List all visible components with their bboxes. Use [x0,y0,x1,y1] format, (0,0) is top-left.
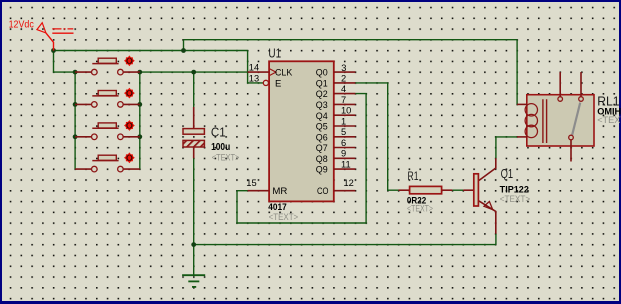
wire 12V node horizontal to E-pin column [54,50,248,52]
svg-text:TIP122: TIP122 [500,184,529,194]
wire C1 bottom to ground rail [193,158,195,244]
pin contact NC [559,72,561,97]
wire 12V node down to button bus [54,51,76,73]
node ground rail junction [191,242,196,247]
node right bus row1 [137,70,142,75]
relay coil [525,104,537,116]
node left bus row2 [73,102,78,107]
button SW4 [75,152,140,172]
emitter arrow [484,202,493,210]
pin stubs Q0-Q9 and CO [334,72,356,191]
svg-text:Q1: Q1 [316,79,328,90]
node 12V junction [51,48,56,53]
switch arm [572,103,580,135]
svg-text:Q4: Q4 [316,111,328,122]
wire rail drop to 12V node [183,40,185,51]
pin numbers right [341,63,354,188]
svg-text:E: E [275,78,281,89]
actuate star SW4 [124,152,135,163]
svg-text:Q2: Q2 [316,89,328,100]
wire R1 to base link [452,189,463,191]
pin common [570,140,572,162]
wire rail drop to relay coil top [516,40,518,105]
pin coil bottom [517,136,527,138]
svg-text:2: 2 [341,73,346,83]
clock chevron [269,69,276,76]
svg-text:10: 10 [341,106,351,116]
wire E-pin column down [248,51,264,83]
svg-text:100u: 100u [211,141,230,153]
wire MR to Q2 loop [237,94,366,223]
svg-text:9: 9 [341,149,346,159]
pin Q1 emitter [479,201,496,234]
pin contact NO [580,72,582,97]
svg-text:<TEXT>: <TEXT> [269,212,299,222]
pin Q1 collector [479,158,496,180]
pin R1 right [442,189,453,191]
wire C1 branch from CLK net [193,72,195,107]
svg-text:12Vdc: 12Vdc [9,19,34,30]
node rail junction [181,48,186,53]
svg-text:5: 5 [341,127,346,137]
wire emitter drop to ground rail [495,234,497,245]
svg-text:4: 4 [341,84,346,94]
svg-text:MR: MR [272,186,287,197]
pin C1 top [193,107,195,129]
svg-text:7: 7 [341,95,346,105]
svg-text:U1: U1 [268,45,281,60]
button SW1 [75,55,140,74]
svg-text:13: 13 [249,73,259,83]
actuate star SW3 [124,120,135,131]
svg-text:6: 6 [341,138,346,148]
svg-text:CO: CO [317,186,329,197]
pin 14 CLK stub [248,71,270,73]
actuate star SW1 [124,55,135,66]
node right bus row2 [137,102,142,107]
labels Q0-Q9 [316,68,328,176]
svg-text:14: 14 [249,63,259,73]
pin coil top [517,103,527,105]
relay core [543,99,547,143]
svg-text:Q0: Q0 [316,68,328,79]
base bar [474,174,479,206]
svg-text:Q3: Q3 [316,100,328,111]
wire MR stub link [237,190,248,192]
pin numbers left [246,63,259,189]
pin Q1 base [463,189,474,191]
svg-text:<TEXT>: <TEXT> [500,194,531,204]
wire collector to relay coil [496,137,517,158]
node left bus row3 [73,134,78,139]
svg-text:11: 11 [341,160,351,170]
svg-text:Q6: Q6 [316,132,328,143]
pin 13 E bubble [263,80,268,85]
svg-text:CLK: CLK [275,67,293,78]
node C1 top junction [191,70,196,75]
svg-text:R1: R1 [408,169,419,183]
wire top supply rail to relay [184,39,518,41]
wire button row1 to CLK pin [140,71,248,73]
node right bus row3 [137,134,142,139]
svg-text:<TEXT>: <TEXT> [407,203,433,213]
svg-text:15: 15 [246,178,256,188]
button SW3 [75,120,140,140]
svg-text:C1: C1 [211,125,226,139]
wire bottom ground rail [194,244,496,246]
wire right button bus [139,72,141,169]
svg-text:<TEXT>: <TEXT> [597,115,621,125]
svg-text:Q8: Q8 [316,154,328,165]
pin R1 left [399,189,410,191]
svg-text:Q9: Q9 [316,165,328,176]
pin 15 MR stub [248,190,270,192]
svg-text:<TEXT>: <TEXT> [212,152,240,162]
svg-text:Q1: Q1 [501,167,514,181]
node left bus row1 [73,70,78,75]
svg-text:1: 1 [341,116,346,126]
wire Q1 output to R1 [355,83,398,190]
actuate star SW2 [124,88,135,99]
svg-text:Q5: Q5 [316,122,328,133]
svg-text:3: 3 [341,63,346,73]
button SW2 [75,88,140,108]
svg-text:Q7: Q7 [316,143,328,154]
svg-text:12: 12 [344,178,354,188]
wire left button bus [74,72,76,169]
pin C1 bottom [193,147,195,158]
